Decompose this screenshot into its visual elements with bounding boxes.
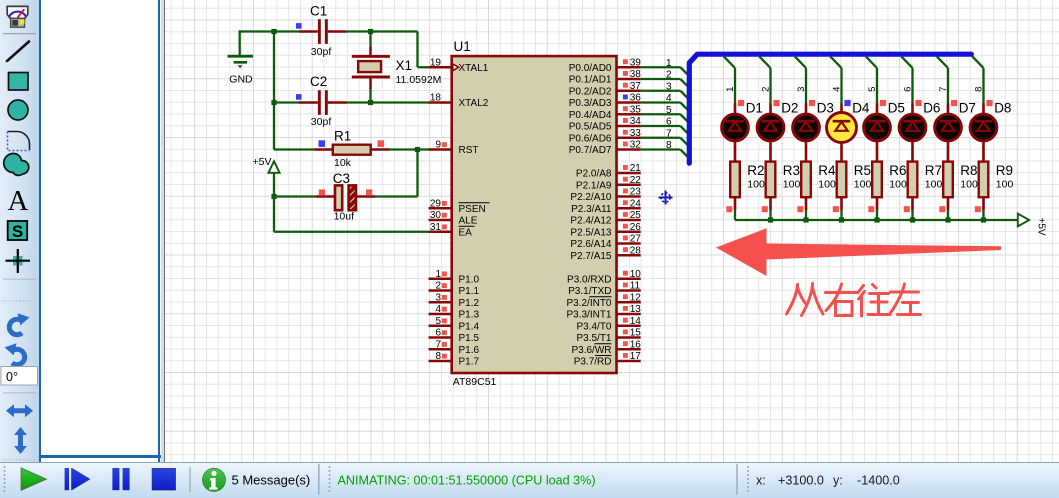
- cursor crosshair: [659, 191, 673, 205]
- svg-text:5 Message(s): 5 Message(s): [232, 473, 311, 488]
- svg-text:R8: R8: [960, 163, 977, 178]
- svg-text:29: 29: [430, 198, 442, 209]
- pin 37 P0.2/AD2: [569, 81, 642, 97]
- svg-text:100: 100: [818, 179, 836, 191]
- toolbar rect tool: [9, 73, 29, 91]
- wire R7 to +5V rail: [911, 210, 913, 221]
- svg-text:C1: C1: [310, 3, 327, 18]
- svg-text:16: 16: [630, 339, 642, 350]
- pause button: [112, 468, 129, 490]
- svg-text:5: 5: [666, 105, 672, 116]
- toolbar instrument icon: [7, 6, 28, 27]
- svg-text:7: 7: [666, 128, 672, 139]
- svg-text:P2.4/A12: P2.4/A12: [570, 216, 612, 227]
- annotation text (cong you wang zuo): [787, 284, 921, 317]
- capacitor C1: [296, 3, 347, 58]
- svg-text:-1400.0: -1400.0: [857, 473, 900, 487]
- op-amp U1 AT89C51 body: [452, 39, 617, 388]
- svg-text:R3: R3: [783, 163, 800, 178]
- wire R1 to RST: [389, 148, 429, 150]
- svg-text:34: 34: [630, 116, 642, 127]
- svg-text:D8: D8: [994, 101, 1011, 116]
- pin 39 P0.0/AD0: [569, 57, 642, 73]
- svg-text:D5: D5: [888, 101, 905, 116]
- svg-text:D4: D4: [852, 101, 870, 116]
- svg-text:P1.7: P1.7: [459, 357, 480, 368]
- wire P0.3 to bus (net 4): [641, 93, 690, 111]
- wire bus to LED D6 (net 6): [901, 56, 913, 104]
- svg-text:EA: EA: [459, 227, 473, 238]
- svg-text:P2.6/A14: P2.6/A14: [570, 239, 612, 250]
- wire C2 to XTAL2: [346, 101, 429, 103]
- svg-text:+3100.0: +3100.0: [778, 473, 824, 487]
- svg-text:P3.2/INT0: P3.2/INT0: [566, 298, 611, 309]
- toolbar path tool: [4, 153, 29, 175]
- svg-text:R2: R2: [747, 163, 764, 178]
- svg-text:R7: R7: [925, 163, 942, 178]
- svg-text:D1: D1: [746, 101, 763, 116]
- pin 21 P2.0/A8: [576, 163, 641, 179]
- pin 27 P2.6/A14: [570, 234, 641, 250]
- pin 12 P3.2/INT0: [566, 292, 641, 308]
- grip dots: [4, 466, 6, 494]
- node crystal bottom: [368, 100, 373, 105]
- svg-text:2: 2: [761, 87, 772, 92]
- pin 1 P1.0: [429, 269, 480, 285]
- node rail R8: [945, 217, 950, 222]
- wire R9 to +5V rail: [982, 210, 984, 221]
- wire R2 to +5V rail: [734, 210, 736, 221]
- pin 10 P3.0/RXD: [567, 269, 641, 285]
- svg-text:28: 28: [630, 245, 642, 256]
- wire left vertical branch C1-C2-R1: [274, 32, 315, 150]
- svg-text:P3.6/WR: P3.6/WR: [571, 345, 611, 356]
- svg-text:21: 21: [630, 163, 642, 174]
- wire bus to LED D5 (net 5): [866, 56, 878, 104]
- svg-text:C3: C3: [333, 171, 350, 186]
- svg-text:19: 19: [430, 57, 442, 68]
- wire crystal top stub: [369, 32, 371, 49]
- capacitor C3 10uf (electrolytic): [316, 171, 375, 223]
- toolbar circle tool: [8, 100, 28, 120]
- svg-text:R6: R6: [889, 163, 906, 178]
- pin 8 P1.7: [429, 351, 480, 367]
- svg-text:23: 23: [630, 187, 642, 198]
- svg-text:4: 4: [435, 304, 441, 315]
- pin 33 P0.6/AD6: [569, 128, 642, 144]
- pin 26 P2.5/A13: [570, 222, 641, 238]
- svg-text:3: 3: [435, 292, 441, 303]
- svg-text:100: 100: [854, 179, 872, 191]
- pin 3 P1.2: [429, 292, 480, 308]
- led D8: [970, 100, 1011, 162]
- panel separator 2: [318, 464, 320, 495]
- svg-text:P1.0: P1.0: [459, 274, 480, 285]
- wire bus to LED D8 (net 8): [972, 56, 984, 104]
- svg-text:4: 4: [666, 93, 672, 104]
- svg-text:P1.6: P1.6: [459, 345, 480, 356]
- svg-text:2: 2: [435, 281, 441, 292]
- toolbar symbol tool: [8, 221, 28, 241]
- wire bus to LED D1 (net 1): [724, 56, 736, 104]
- led D3: [793, 100, 834, 162]
- wire bus to LED D2 (net 2): [759, 56, 771, 104]
- wire C1 to XTAL1: [346, 32, 429, 68]
- svg-text:31: 31: [430, 222, 442, 233]
- led D1: [722, 100, 763, 162]
- svg-text:22: 22: [630, 175, 642, 186]
- svg-text:1: 1: [666, 58, 672, 69]
- pin 28 P2.7/A15: [570, 245, 641, 261]
- play button: [21, 468, 47, 491]
- resistor R1 10k: [314, 128, 390, 169]
- led D7: [935, 100, 976, 162]
- toolbar arc tool: [8, 132, 30, 151]
- svg-text:4: 4: [832, 87, 843, 92]
- pin 36 P0.3/AD3: [569, 93, 642, 109]
- svg-text:32: 32: [630, 140, 642, 151]
- svg-text:R5: R5: [854, 163, 871, 178]
- svg-text:D6: D6: [923, 101, 940, 116]
- pin 34 P0.5/AD5: [569, 116, 642, 132]
- pin 30 ALE: [429, 210, 478, 226]
- svg-text:GND: GND: [229, 74, 253, 86]
- power +5V right: [1018, 214, 1047, 236]
- svg-text:R9: R9: [996, 163, 1013, 178]
- svg-text:D2: D2: [781, 101, 798, 116]
- capacitor C2: [296, 74, 347, 128]
- node rail R9: [981, 217, 986, 222]
- svg-text:26: 26: [630, 222, 642, 233]
- resistor R4 100: [797, 162, 836, 213]
- wire P0.1 to bus (net 2): [641, 70, 690, 88]
- svg-text:RST: RST: [459, 145, 479, 156]
- wire C3 right vertical: [374, 150, 418, 197]
- toolbar hflip: [6, 404, 33, 417]
- svg-text:P0.4/AD4: P0.4/AD4: [569, 110, 612, 121]
- pin 11 P3.1/TXD: [568, 281, 641, 297]
- toolbar separator 3: [3, 392, 36, 394]
- toolbar separator 2: [3, 278, 36, 280]
- resistor R3 100: [762, 162, 801, 213]
- pin 18 XTAL2: [429, 93, 489, 109]
- svg-text:P2.1/A9: P2.1/A9: [576, 180, 612, 191]
- wire +5V rail: [735, 219, 1018, 221]
- pin 16 P3.6/WR: [571, 339, 641, 355]
- step button: [65, 468, 90, 490]
- svg-text:30pf: 30pf: [311, 46, 332, 58]
- svg-text:10: 10: [630, 269, 642, 280]
- svg-text:X1: X1: [396, 58, 413, 73]
- pin 14 P3.4/T0: [576, 316, 641, 332]
- pin 25 P2.4/A12: [570, 210, 641, 226]
- svg-text:D7: D7: [959, 101, 976, 116]
- svg-text:11: 11: [630, 281, 641, 292]
- svg-text:9: 9: [435, 140, 441, 151]
- svg-text:P3.3/INT1: P3.3/INT1: [566, 310, 611, 321]
- node rail R4: [803, 217, 808, 222]
- svg-text:27: 27: [630, 234, 642, 245]
- svg-text:P1.4: P1.4: [459, 321, 480, 332]
- svg-text:S: S: [12, 222, 23, 241]
- pin 31 EA: [429, 222, 475, 238]
- node crystal top: [368, 29, 373, 34]
- svg-text:AT89C51: AT89C51: [453, 376, 497, 388]
- pin 13 P3.3/INT1: [566, 304, 641, 320]
- svg-text:38: 38: [630, 69, 642, 80]
- node rail R3: [768, 217, 773, 222]
- node RST/C3 branch: [415, 147, 420, 152]
- svg-text:+5V: +5V: [253, 156, 272, 168]
- pin 38 P0.1/AD1: [569, 69, 642, 85]
- svg-text:P3.4/T0: P3.4/T0: [576, 321, 611, 332]
- svg-text:11.0592M: 11.0592M: [396, 74, 442, 86]
- svg-text:P1.3: P1.3: [459, 310, 480, 321]
- svg-text:13: 13: [630, 304, 642, 315]
- panel separator 3: [736, 464, 738, 495]
- svg-text:30pf: 30pf: [311, 116, 332, 128]
- message icon: [202, 468, 225, 491]
- svg-text:+5V: +5V: [1036, 218, 1047, 236]
- node rail R6: [874, 217, 879, 222]
- svg-text:100: 100: [747, 179, 765, 191]
- pin 6 P1.5: [429, 328, 480, 344]
- svg-text:3: 3: [666, 81, 672, 92]
- svg-text:P0.2/AD2: P0.2/AD2: [569, 86, 612, 97]
- wire crystal bottom stub: [369, 88, 371, 103]
- svg-text:ANIMATING: 00:01:51.550000 (CP: ANIMATING: 00:01:51.550000 (CPU load 3%): [338, 473, 596, 487]
- wire to C3: [274, 195, 317, 197]
- svg-text:C2: C2: [310, 74, 327, 89]
- svg-text:XTAL1: XTAL1: [459, 63, 489, 74]
- svg-text:D3: D3: [817, 101, 834, 116]
- wire bus to LED D3 (net 3): [795, 56, 807, 104]
- pin 32 P0.7/AD7: [569, 140, 642, 156]
- svg-text:24: 24: [630, 198, 642, 209]
- svg-text:15: 15: [630, 328, 642, 339]
- wire R6 to +5V rail: [876, 210, 878, 221]
- svg-text:6: 6: [666, 117, 672, 128]
- resistor R5 100: [833, 162, 872, 213]
- toolbar rotate cw: [9, 313, 29, 334]
- svg-text:100: 100: [960, 179, 978, 191]
- svg-text:P0.5/AD5: P0.5/AD5: [569, 122, 612, 133]
- wire R8 to +5V rail: [947, 210, 949, 221]
- resistor R7 100: [904, 162, 943, 213]
- svg-text:P2.0/A8: P2.0/A8: [576, 169, 612, 180]
- wire P0.7 to bus (net 8): [641, 140, 690, 158]
- wire bus to LED D4 (net 4): [830, 56, 842, 104]
- node at C1/left branch: [271, 29, 276, 34]
- power +5V left: [253, 156, 280, 173]
- svg-text:x:: x:: [756, 473, 766, 487]
- svg-text:7: 7: [435, 339, 441, 350]
- wire bus to LED D7 (net 7): [937, 56, 949, 104]
- pin 9 RST: [429, 140, 479, 156]
- svg-text:6: 6: [435, 328, 441, 339]
- svg-text:35: 35: [630, 104, 642, 115]
- svg-text:P3.7/RD: P3.7/RD: [574, 357, 612, 368]
- pin 7 P1.6: [429, 339, 480, 355]
- toolbar bottom dotted: [2, 459, 37, 461]
- resistor R6 100: [868, 162, 907, 213]
- svg-text:10uf: 10uf: [334, 210, 355, 222]
- pin 2 P1.1: [429, 281, 480, 297]
- svg-text:17: 17: [630, 351, 642, 362]
- svg-text:P2.5/A13: P2.5/A13: [570, 227, 612, 238]
- svg-text:P1.5: P1.5: [459, 333, 480, 344]
- wire P0.0 to bus (net 1): [641, 58, 690, 76]
- svg-text:U1: U1: [454, 39, 471, 54]
- svg-text:5: 5: [435, 316, 441, 327]
- svg-text:2: 2: [666, 70, 672, 81]
- svg-text:14: 14: [630, 316, 642, 327]
- crystal X1 11.0592M: [352, 47, 442, 89]
- wire +5V down to EA: [274, 173, 429, 232]
- wire R4 to +5V rail: [805, 210, 807, 221]
- wire R5 to +5V rail: [840, 210, 842, 221]
- separator: [189, 467, 191, 492]
- toolbar vflip: [14, 427, 27, 454]
- pin 22 P2.1/A9: [576, 175, 641, 191]
- svg-text:P0.7/AD7: P0.7/AD7: [569, 145, 612, 156]
- svg-text:8: 8: [435, 351, 441, 362]
- wire GND to C1: [239, 30, 300, 32]
- svg-text:37: 37: [630, 81, 642, 92]
- toolbar separator: [3, 33, 36, 35]
- pin 24 P2.3/A11: [571, 198, 641, 214]
- svg-text:P0.1/AD1: P0.1/AD1: [569, 75, 612, 86]
- wire R3 to +5V rail: [769, 210, 771, 221]
- svg-text:R4: R4: [818, 163, 836, 178]
- svg-text:100: 100: [783, 179, 801, 191]
- toolbar marker tool: [6, 249, 31, 273]
- resistor R2 100: [726, 162, 765, 213]
- svg-text:0°: 0°: [6, 370, 18, 384]
- pin 5 P1.4: [429, 316, 480, 332]
- svg-text:A: A: [8, 185, 29, 217]
- svg-text:P2.7/A15: P2.7/A15: [570, 251, 612, 262]
- stop button: [152, 468, 176, 490]
- svg-text:P1.1: P1.1: [459, 286, 480, 297]
- svg-text:P0.0/AD0: P0.0/AD0: [569, 63, 612, 74]
- resistor R8 100: [939, 162, 978, 213]
- svg-text:39: 39: [630, 57, 642, 68]
- wire P0.5 to bus (net 6): [641, 117, 690, 135]
- svg-text:25: 25: [630, 210, 642, 221]
- svg-text:1: 1: [435, 269, 441, 280]
- resistor R9 100: [975, 162, 1014, 213]
- ground: [228, 30, 253, 85]
- svg-text:P0.6/AD6: P0.6/AD6: [569, 133, 612, 144]
- svg-text:P2.3/A11: P2.3/A11: [571, 204, 612, 215]
- wire P0.4 to bus (net 5): [641, 105, 690, 123]
- svg-text:3: 3: [796, 87, 807, 92]
- pin 15 P3.5/T1: [576, 328, 641, 344]
- led D4: [827, 100, 870, 162]
- node rail R5: [839, 217, 844, 222]
- pin 35 P0.4/AD4: [569, 104, 642, 120]
- wire C2 left stub: [274, 101, 300, 103]
- svg-text:6: 6: [903, 87, 914, 92]
- wire P0.2 to bus (net 3): [641, 81, 690, 99]
- pin 19 XTAL1: [429, 57, 489, 73]
- pin 29 PSEN: [429, 198, 490, 214]
- svg-text:10k: 10k: [334, 157, 352, 169]
- svg-text:100: 100: [996, 179, 1014, 191]
- svg-text:8: 8: [974, 87, 985, 92]
- svg-text:30: 30: [430, 210, 442, 221]
- led D6: [899, 100, 940, 162]
- svg-text:y:: y:: [833, 473, 843, 487]
- svg-text:P2.2/A10: P2.2/A10: [570, 192, 612, 203]
- node rail R7: [910, 217, 915, 222]
- led D5: [864, 100, 905, 162]
- svg-text:100: 100: [889, 179, 907, 191]
- annotation red arrow: [716, 228, 1001, 276]
- svg-text:P3.1/TXD: P3.1/TXD: [568, 286, 611, 297]
- svg-text:P3.5/T1: P3.5/T1: [576, 333, 611, 344]
- bus P0: [689, 54, 971, 163]
- svg-text:12: 12: [630, 292, 642, 303]
- led D2: [757, 100, 798, 162]
- svg-text:ALE: ALE: [459, 216, 478, 227]
- svg-text:36: 36: [630, 93, 642, 104]
- node at C2 left: [271, 100, 276, 105]
- svg-text:P0.3/AD3: P0.3/AD3: [569, 98, 612, 109]
- toolbar rotate ccw: [5, 343, 25, 364]
- toolbar line tool: [7, 42, 29, 62]
- node C3 left branch: [271, 194, 276, 199]
- svg-text:7: 7: [938, 87, 949, 92]
- svg-text:5: 5: [867, 87, 878, 92]
- svg-text:8: 8: [666, 140, 672, 151]
- svg-text:18: 18: [430, 93, 442, 104]
- svg-text:100: 100: [925, 179, 943, 191]
- svg-text:R1: R1: [334, 128, 351, 143]
- svg-text:PSEN: PSEN: [459, 204, 486, 215]
- svg-text:P1.2: P1.2: [459, 298, 480, 309]
- toolbar angle box: [1, 367, 38, 386]
- pin 23 P2.2/A10: [570, 187, 641, 203]
- svg-text:P3.0/RXD: P3.0/RXD: [567, 274, 611, 285]
- pin 4 P1.3: [429, 304, 480, 320]
- svg-text:33: 33: [630, 128, 642, 139]
- pin 17 P3.7/RD: [574, 351, 642, 367]
- wire P0.6 to bus (net 7): [641, 128, 690, 146]
- svg-text:XTAL2: XTAL2: [459, 98, 489, 109]
- svg-text:1: 1: [725, 87, 736, 92]
